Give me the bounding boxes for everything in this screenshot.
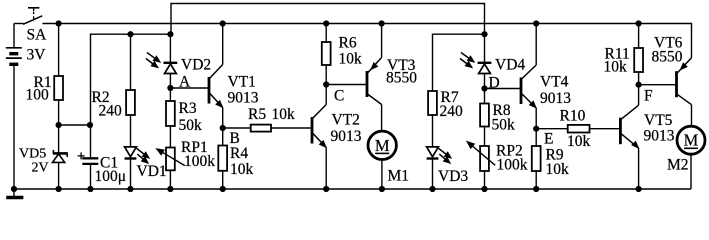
wire node A to VT1 base [170,87,209,89]
node junction R6 top on 3V rail [323,20,329,26]
svg-text:R10: R10 [560,108,586,125]
node junction R1 top on 3V rail [56,20,62,26]
label M2 [667,157,689,174]
wire node B to R5 [223,127,251,129]
transistor VT5 emitter [620,133,639,189]
node junction VD3-bottom rail [429,186,435,192]
svg-text:50k: 50k [179,117,203,134]
node junction C1-bottom rail [87,186,93,192]
transistor VT3 emitter [368,24,382,74]
wire VD4 top lead [484,34,486,63]
wire VD2 top lead [169,34,171,63]
label RP1 100k [181,139,215,170]
node junction VT1 collector on 3V rail [220,20,226,26]
transistor VT1 base bar [208,77,211,104]
label VT6 8550 [652,35,683,66]
svg-text:9013: 9013 [644,128,675,145]
svg-text:VD1: VD1 [137,163,167,180]
label R11 10k [604,46,630,76]
node junction VT3 emitter on 3V rail [379,20,385,26]
wire y125 link [59,124,90,126]
zener diode VD5 [53,150,68,163]
label R9 10k [546,147,570,179]
svg-text:100: 100 [26,87,50,104]
svg-text:VT5: VT5 [644,112,673,129]
label R5 10k [248,106,295,123]
label C1 plus [78,152,85,159]
resistor R3 [166,101,175,126]
resistor R7 [428,91,437,115]
resistor R8 [480,104,489,127]
svg-text:R3: R3 [179,100,197,117]
svg-text:10k: 10k [604,59,628,76]
label VT3 8550 [386,57,417,87]
photodiode VD4 arrows [460,53,474,68]
svg-text:VT1: VT1 [228,74,256,91]
resistor R5 [251,125,271,132]
label VD4 [495,57,525,74]
wire R8 to RP2 [484,127,486,147]
wire R8 top lead [484,89,486,104]
svg-text:9013: 9013 [331,128,362,145]
svg-text:2V: 2V [32,161,49,176]
wire bottom rail [14,188,691,190]
wire R7 to VD3 [432,115,434,147]
wire R9 top lead [535,129,537,146]
label VD3 [438,168,468,185]
transistor VT4 base bar [520,78,523,105]
resistor R1 [54,76,63,100]
label R1 100 [26,74,52,104]
label M1 [388,168,410,185]
LED VD1 [125,147,137,159]
transistor VT5 collector [620,85,639,121]
wire R11 bottom lead [638,72,640,85]
transistor VT1 emitter [209,92,223,128]
node junction RP2-bottom rail [481,186,487,192]
wire top 3V rail [43,24,692,58]
photodiode VD4 [478,63,492,74]
node junction y125 wire right [87,122,93,128]
transistor VT5 base bar [619,118,622,145]
label R7 240 [440,89,464,120]
label VT2 9013 [331,112,362,146]
label R2 240 [92,89,123,120]
wire VD2 to node A [169,74,171,89]
node junction VT2 emitter-bottom rail [323,186,329,192]
wire R4 top lead [222,128,224,146]
wire R3 top lead [169,88,171,101]
svg-text:M: M [375,136,390,155]
node junction R2 top on 2V rail [127,31,133,37]
svg-text:8550: 8550 [652,49,683,66]
svg-text:E: E [544,131,553,148]
wire VD4 to node D [484,74,486,89]
svg-text:R4: R4 [230,145,248,162]
wire VD1 bottom lead [130,159,132,190]
label C1 100u [95,155,127,186]
label R6 10k [339,35,363,68]
node C [323,81,344,104]
node junction zener top / y125 wire left [56,122,62,128]
label VT5 9013 [644,112,675,145]
node E [533,126,553,148]
label VT4 9013 [540,74,571,108]
wire R11 top lead [638,24,640,49]
wire VD3 bottom lead [432,159,434,190]
potentiometer RP1 [156,148,185,171]
svg-text:100k: 100k [184,153,215,170]
wire top 3V rail left segment (battery to switch) [14,23,24,25]
label 3V [27,47,47,64]
transistor VT4 collector [521,24,537,81]
wire 2V rail right [433,34,485,91]
svg-text:10k: 10k [546,161,570,178]
node junction VD2 top on 2V rail [167,31,173,37]
wire RP1 bottom lead [169,170,171,189]
switch SA blade [23,16,42,24]
resistor R2 [126,90,135,115]
svg-text:M1: M1 [388,168,410,185]
svg-text:10k: 10k [272,106,296,123]
wire battery bottom lead [13,64,15,189]
node junction VT4 collector on 3V rail [533,20,539,26]
node junction R11 top on 3V rail [636,20,642,26]
motor M1 [368,131,396,159]
svg-text:100k: 100k [497,157,528,174]
photodiode VD2 arrows [146,53,160,68]
label R8 50k [492,102,516,134]
svg-text:10k: 10k [230,161,254,178]
wire battery top lead [13,24,15,48]
node junction VD4 top on 2V rail [481,31,487,37]
LED VD3 [427,147,439,159]
node B [220,125,240,147]
svg-text:3V: 3V [27,47,47,64]
resistor R6 [322,42,331,65]
node A [167,74,191,92]
transistor VT2 base bar [311,117,314,144]
svg-text:M: M [684,131,699,150]
label RP2 100k [496,143,528,174]
svg-text:10k: 10k [567,133,591,150]
resistor R9 [532,146,541,171]
svg-text:R6: R6 [339,35,357,52]
svg-text:C: C [334,88,344,105]
label R4 10k [230,145,254,178]
svg-text:VD4: VD4 [495,57,525,74]
node junction M1-bottom rail [379,186,385,192]
wire RP2 bottom lead [484,171,486,189]
wire R6 top lead [325,24,327,43]
wire C1 bottom lead [90,164,92,189]
wire node D to VT4 base [485,88,522,90]
photodiode VD2 [164,63,178,74]
svg-text:VT2: VT2 [332,112,360,129]
wire R2 top lead [130,34,132,90]
wire M1 bottom lead [381,159,383,189]
node junction R4-bottom rail [220,186,226,192]
node junction battery-ground [11,186,17,192]
svg-text:100μ: 100μ [95,168,127,185]
resistor R10 [568,125,590,133]
wire R1 top lead [58,24,60,77]
svg-text:240: 240 [440,103,464,120]
label R3 50k [179,100,203,134]
wire R2 to VD1 [130,115,132,147]
transistor VT3 base bar [366,71,369,97]
potentiometer RP2 [467,141,495,171]
wire R6 bottom lead [325,65,327,85]
wire node C to VT3 base [326,84,367,86]
transistor VT6 emitter [677,58,692,73]
node F [636,82,654,105]
wire ground stub [13,189,15,196]
LED VD1 arrows [137,148,150,163]
wire VD5 bottom lead [58,162,60,189]
svg-text:F: F [644,88,653,105]
svg-text:240: 240 [99,103,123,120]
svg-text:VD5: VD5 [19,147,46,162]
svg-text:8550: 8550 [386,70,417,87]
battery GB 3V [6,48,22,65]
transistor VT6 collector [677,94,692,127]
wire R3 to RP1 [169,126,171,148]
svg-text:9013: 9013 [540,90,571,107]
ground [6,196,23,200]
wire node E to R10 [536,128,568,130]
transistor VT2 emitter [312,132,327,189]
label VD2 [181,57,211,74]
LED VD3 arrows [439,148,452,163]
node D [481,75,499,92]
transistor VT1 collector [209,24,223,80]
transistor VT2 collector [312,85,327,120]
label VD5 2V [19,147,49,176]
wire R5 to VT2 base [271,127,312,129]
svg-text:R5: R5 [248,106,266,123]
label VD1 [137,163,167,180]
node junction R9-bottom rail [533,186,539,192]
transistor VT4 emitter [521,93,537,129]
wire node F to VT6 base [639,84,677,86]
node junction VD1-bottom rail [127,186,133,192]
label SA [27,27,48,44]
svg-text:50k: 50k [492,117,516,134]
wire R1 bottom to VD5 [58,100,60,153]
wire M2 bottom lead [690,154,692,189]
svg-text:M2: M2 [667,157,689,174]
transistor VT6 base bar [675,71,678,97]
label R10 10k [560,108,591,151]
transistor VT3 collector [368,94,382,132]
capacitor C1 plates [82,158,98,164]
resistor R4 [218,146,227,171]
wire R4 bottom lead [222,171,224,189]
node junction VT5 emitter-bottom rail [636,186,642,192]
svg-text:VT4: VT4 [540,74,569,91]
label VT1 9013 [228,74,259,107]
resistor R11 [634,48,643,72]
motor M2 [677,126,705,154]
wire 2V rail left [91,34,171,158]
svg-text:SA: SA [27,27,48,44]
svg-text:VD2: VD2 [181,57,211,74]
switch SA actuator T-bar [28,8,39,22]
node junction VD5-bottom rail [56,186,62,192]
svg-text:10k: 10k [339,51,363,68]
node junction RP1-bottom rail [167,186,173,192]
wire R9 bottom lead [535,171,537,189]
wire R10 to VT5 base [590,128,621,130]
wire bridge top outer (2V rail jumper) [171,4,485,35]
svg-text:9013: 9013 [228,90,259,107]
svg-text:VD3: VD3 [438,168,468,185]
